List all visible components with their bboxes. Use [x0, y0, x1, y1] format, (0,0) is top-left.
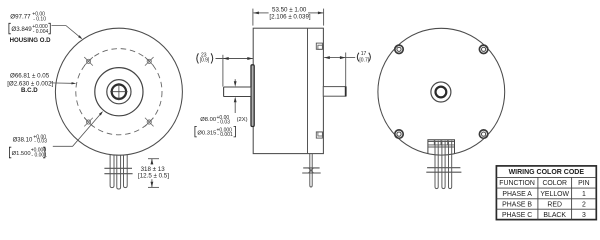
rear face boss top	[316, 43, 322, 49]
pilot circle Ø38.10	[95, 68, 143, 116]
rear shaft extension dimension 17 [0.7]	[324, 53, 355, 87]
svg-text:B.C.D: B.C.D	[21, 87, 38, 94]
wire tie bar 2 side view	[302, 172, 321, 174]
connector pin dividers	[434, 140, 447, 145]
svg-text:FUNCTION: FUNCTION	[499, 180, 535, 187]
svg-text:Ø66.81 ± 0.05: Ø66.81 ± 0.05	[10, 72, 50, 79]
front flange band	[251, 65, 254, 127]
wire length dimension 318 ± 13	[148, 159, 159, 188]
screw bottom-left	[395, 130, 403, 138]
rear shaft	[323, 87, 345, 97]
rear shaft end circle	[436, 87, 447, 98]
lead wire 3 front view	[124, 155, 128, 188]
svg-text:3: 3	[582, 212, 586, 219]
shaft diameter arrows Ø8.00	[234, 79, 236, 82]
svg-text:- 0.10: - 0.10	[33, 17, 46, 23]
svg-text:PHASE A: PHASE A	[502, 191, 532, 198]
wire tie bar 1 rear view	[427, 167, 460, 169]
svg-text:- 0.03: - 0.03	[217, 120, 230, 126]
bolt circle (B.C.D) dashed circle	[76, 49, 162, 135]
svg-text:BLACK: BLACK	[543, 212, 566, 219]
svg-text:[0.7]: [0.7]	[359, 57, 369, 63]
svg-text:Ø1.500: Ø1.500	[12, 151, 31, 157]
svg-text:[0.9]: [0.9]	[200, 58, 210, 64]
svg-text:1: 1	[582, 191, 586, 198]
svg-text:2: 2	[582, 201, 586, 208]
wire tie bar 1 front view	[104, 167, 132, 169]
front shaft	[224, 87, 251, 97]
lead wire 3 rear view	[449, 141, 452, 189]
lead wire 2 rear view	[442, 141, 445, 189]
connector block	[428, 140, 455, 154]
shaft boss circle	[107, 80, 131, 104]
svg-text:Ø3.849: Ø3.849	[11, 26, 32, 33]
connector band lines	[428, 144, 455, 146]
svg-text:17: 17	[361, 51, 367, 57]
table column lines	[538, 177, 572, 219]
svg-text:Ø0.315: Ø0.315	[197, 130, 216, 136]
rear view outer circle	[378, 28, 505, 155]
mounting hole top-right	[145, 57, 154, 66]
label Ø97.77 housing OD	[9, 11, 51, 44]
screw top-left	[395, 45, 403, 53]
svg-text:[12.5 ± 0.5]: [12.5 ± 0.5]	[138, 173, 169, 180]
wire bundle side view	[310, 154, 312, 187]
svg-text:PIN: PIN	[578, 180, 590, 187]
svg-text:PHASE B: PHASE B	[502, 201, 532, 208]
screw top-right	[479, 45, 487, 53]
svg-text:HOUSING O.D: HOUSING O.D	[10, 37, 52, 44]
wire tie bar 2 front view	[104, 173, 132, 175]
rear shaft end edge	[345, 86, 347, 96]
table row lines	[496, 177, 596, 209]
motor body outline side view	[253, 28, 323, 153]
lead wire 2 front view	[117, 155, 121, 189]
svg-text:[2.106 ± 0.039]: [2.106 ± 0.039]	[269, 13, 311, 20]
svg-text:- 0.03: - 0.03	[34, 139, 47, 145]
svg-text:COLOR: COLOR	[542, 180, 567, 187]
shaft end circle	[112, 85, 126, 99]
svg-text:Ø38.10: Ø38.10	[13, 137, 33, 143]
screw bottom-right	[479, 130, 487, 138]
svg-text:YELLOW: YELLOW	[540, 191, 569, 198]
label Ø38.10 pilot	[9, 135, 47, 159]
rear hub outer circle	[431, 82, 451, 102]
svg-text:RED: RED	[547, 201, 562, 208]
svg-text:- 0.001: - 0.001	[217, 132, 233, 138]
overall length dimension 53.50	[253, 9, 324, 26]
svg-text:- 0.004: - 0.004	[33, 29, 49, 35]
leader BCD	[50, 82, 72, 84]
label Ø8.00 (2X)	[195, 115, 248, 138]
mounting hole bottom-left	[84, 118, 93, 127]
center cross	[110, 91, 127, 93]
leader pilot diameter	[53, 112, 102, 146]
wire twist cross	[308, 168, 313, 174]
svg-text:Ø97.77: Ø97.77	[10, 13, 31, 20]
front view housing outer circle	[55, 28, 182, 155]
mounting hole top-left	[84, 57, 93, 66]
housing step line	[307, 28, 309, 153]
svg-text:PHASE C: PHASE C	[502, 212, 532, 219]
svg-text:Ø8.00: Ø8.00	[200, 117, 216, 123]
wiring color code table frame	[496, 166, 596, 220]
wire tie bar 1 side view	[303, 167, 319, 169]
label Ø66.81 BCD	[7, 72, 53, 94]
lead wire 1 front view	[110, 155, 114, 188]
mounting hole bottom-right	[145, 118, 154, 127]
lead wire 1 rear view	[435, 141, 438, 189]
rear face boss bottom	[316, 132, 322, 138]
svg-text:WIRING COLOR CODE: WIRING COLOR CODE	[509, 169, 585, 176]
front shaft extension dimension 23 [0.9]	[216, 55, 253, 87]
svg-text:(2X): (2X)	[237, 117, 248, 123]
wire tie bar 2 rear view	[426, 171, 461, 173]
leader housing OD	[52, 26, 82, 39]
